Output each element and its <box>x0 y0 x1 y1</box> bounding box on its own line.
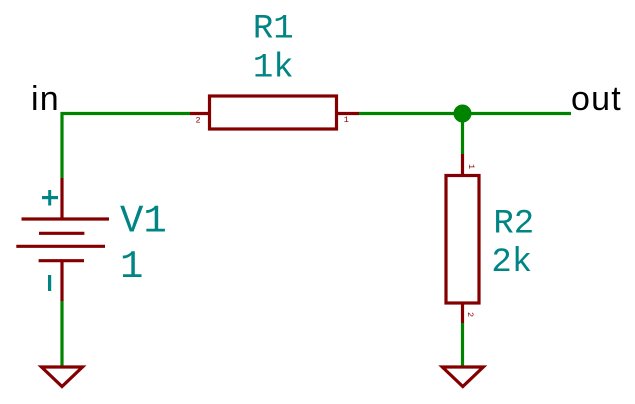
wire junction to R2 <box>461 114 464 155</box>
resistor R1 pin 2 <box>190 112 210 115</box>
battery V1 plate 1 long <box>22 217 110 220</box>
wire in horizontal + vertical <box>62 114 190 179</box>
svg-text:1: 1 <box>120 245 143 289</box>
resistor R2 body <box>446 176 479 304</box>
battery V1 plate 2 short <box>39 232 84 235</box>
svg-text:out: out <box>571 80 622 118</box>
wire out horizontal <box>359 112 571 115</box>
svg-text:1: 1 <box>344 115 349 125</box>
svg-text:R2: R2 <box>493 205 534 243</box>
battery V1 plate 4 short <box>39 259 84 262</box>
svg-text:1k: 1k <box>253 49 294 87</box>
svg-text:in: in <box>31 80 60 118</box>
battery V1 pin - (bottom) <box>60 261 63 301</box>
svg-text:1: 1 <box>466 164 476 169</box>
resistor R2 pin 2 <box>461 303 464 323</box>
wire R2 to ground <box>461 323 464 367</box>
ground left <box>42 367 83 387</box>
battery minus sign (rotated) <box>48 275 51 291</box>
resistor R1 body <box>210 96 337 129</box>
battery V1 plate 3 long <box>16 245 105 248</box>
resistor R2 pin 1 <box>461 154 464 176</box>
battery V1 pin + (top) <box>60 178 63 219</box>
svg-text:R1: R1 <box>253 10 294 48</box>
svg-text:2k: 2k <box>491 244 532 282</box>
battery plus sign <box>42 190 58 206</box>
wire battery to ground <box>60 301 63 367</box>
svg-text:2: 2 <box>195 115 200 125</box>
svg-text:2: 2 <box>465 312 475 317</box>
resistor R1 pin 1 <box>337 112 360 115</box>
ground right <box>442 367 483 387</box>
svg-text:V1: V1 <box>120 200 167 244</box>
junction node out <box>454 105 472 123</box>
